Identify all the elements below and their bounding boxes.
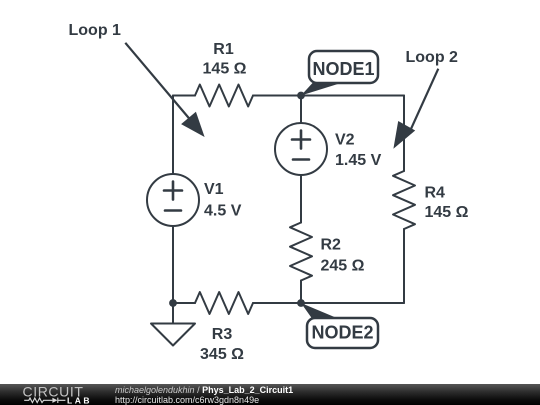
wire R2 to NODE2 <box>300 281 302 304</box>
node label NODE1 callout <box>301 51 378 96</box>
node B junction dot NODE2 <box>297 299 305 307</box>
wire junction to ground <box>172 303 174 324</box>
voltage source V2 <box>275 123 327 175</box>
svg-text:1.45 V: 1.45 V <box>335 152 382 169</box>
annotation Loop 2 arrow <box>393 69 438 149</box>
svg-text:V1: V1 <box>204 181 224 198</box>
svg-text:Loop 2: Loop 2 <box>406 49 459 66</box>
label V2 value <box>335 132 382 170</box>
svg-text:245 Ω: 245 Ω <box>321 258 365 275</box>
resistor R4 <box>393 171 415 229</box>
wire right side top (corner to R4) <box>403 96 405 172</box>
resistor R1 <box>195 85 253 107</box>
svg-text:NODE2: NODE2 <box>311 323 373 343</box>
wire junction to R3 <box>173 302 195 304</box>
wire left side top (corner to V1) <box>172 96 174 175</box>
svg-text:145 Ω: 145 Ω <box>425 204 469 221</box>
footer text line 1 <box>115 385 293 395</box>
node label NODE2 callout <box>301 303 378 348</box>
footer text line 2 <box>115 395 259 405</box>
resistor R3 <box>195 292 253 314</box>
svg-text:R3: R3 <box>212 326 233 343</box>
node C junction dot ground <box>169 299 177 307</box>
wire R1 to node NODE1 <box>253 95 301 97</box>
svg-text:R2: R2 <box>321 237 342 254</box>
label R3 value <box>200 326 244 363</box>
svg-text:R4: R4 <box>425 185 446 202</box>
resistor R2 <box>290 223 312 281</box>
svg-text:345 Ω: 345 Ω <box>200 346 244 363</box>
svg-text:145 Ω: 145 Ω <box>203 61 247 78</box>
annotation Loop 1 arrow <box>125 43 204 137</box>
wire NODE1 to top-right corner <box>301 95 404 97</box>
wire R3 to NODE2 <box>253 302 301 304</box>
wire NODE1 to V2 <box>300 96 302 124</box>
svg-text:NODE1: NODE1 <box>312 59 374 79</box>
svg-text:V2: V2 <box>335 132 355 149</box>
wire top-left to R1 <box>173 95 195 97</box>
wire V1 to bottom-left junction <box>172 226 174 303</box>
wire V2 to R2 <box>300 175 302 223</box>
label R1 value <box>203 41 247 78</box>
CircuitLab logo <box>22 384 117 405</box>
svg-text:Loop 1: Loop 1 <box>69 22 122 39</box>
label R2 value <box>321 237 365 275</box>
svg-text:LAB: LAB <box>67 396 92 405</box>
label V1 value <box>204 181 242 220</box>
ground <box>151 324 195 346</box>
wire R4 to bottom-right corner <box>403 229 405 303</box>
footer bar <box>0 384 540 405</box>
voltage source V1 <box>147 174 199 226</box>
label R4 value <box>425 185 469 222</box>
wire NODE2 to bottom-right corner <box>301 302 404 304</box>
svg-text:4.5 V: 4.5 V <box>204 203 242 220</box>
svg-text:R1: R1 <box>213 41 234 58</box>
node A junction dot NODE1 <box>297 92 305 100</box>
